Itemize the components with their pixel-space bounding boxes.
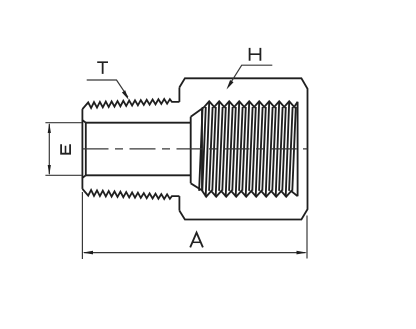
bore line top	[86, 122, 191, 124]
A arrow left	[83, 251, 94, 255]
A extension line left	[81, 192, 83, 259]
male NPT thread T: top crest zigzag	[82, 99, 179, 109]
E extension line top	[45, 122, 82, 124]
E dimension line	[48, 124, 50, 174]
H leader arrowhead	[227, 80, 234, 90]
female thread cone bottom slant	[191, 183, 202, 190]
pipe end face	[81, 109, 83, 189]
label E (rotated 90deg, arms up)	[60, 144, 71, 154]
pipe end bore opening	[85, 123, 87, 176]
pipe end chamfer bottom	[82, 175, 85, 178]
A extension line right	[306, 216, 308, 259]
body left face lower	[178, 196, 180, 211]
female thread end plane	[297, 102, 299, 196]
T leader arrowhead	[122, 90, 129, 100]
E extension line bottom	[45, 174, 82, 176]
bore line bottom	[86, 174, 191, 176]
male NPT thread T: bottom crest zigzag	[82, 189, 179, 199]
body left face upper	[178, 87, 180, 102]
female thread start plane	[201, 109, 203, 190]
A dimension line	[84, 252, 306, 254]
E arrow up	[48, 123, 51, 133]
E arrow down	[48, 165, 51, 175]
pipe end chamfer top	[82, 120, 85, 123]
H leader line	[229, 65, 273, 86]
T leader line	[87, 80, 128, 97]
female thread H: bottom crest zigzag	[202, 189, 298, 196]
female thread cone top slant	[191, 109, 202, 117]
female thread H: top crest zigzag	[202, 101, 298, 108]
centerline	[83, 148, 308, 150]
female thread cone small end	[190, 117, 192, 184]
label H	[249, 48, 262, 61]
female thread groove lines	[199, 107, 203, 191]
label A	[190, 233, 203, 248]
A arrow right	[297, 251, 308, 255]
body outline	[179, 78, 307, 219]
label T	[97, 61, 108, 74]
